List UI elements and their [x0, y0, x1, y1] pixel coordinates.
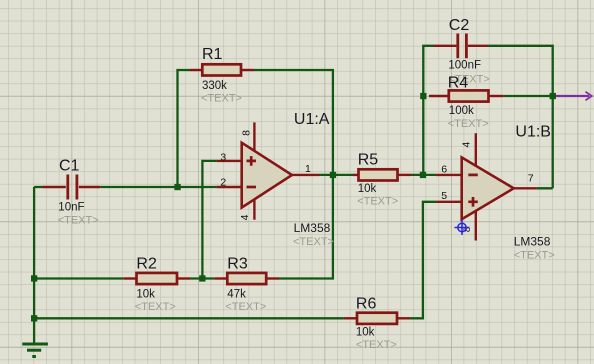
- label R5: [358, 152, 379, 169]
- svg-text:47k: 47k: [227, 289, 246, 301]
- wire: pin5 to R6 right riser: [410, 202, 436, 318]
- pin 4 label (U1:B): [460, 142, 472, 148]
- label R3: [227, 256, 248, 273]
- svg-text:8: 8: [241, 130, 253, 136]
- svg-text:100nF: 100nF: [448, 60, 481, 72]
- part name LM358 (U1:A): [294, 221, 331, 235]
- pin 7 label: [528, 173, 534, 185]
- value 100k: [449, 105, 474, 117]
- svg-text:<TEXT>: <TEXT>: [135, 301, 176, 313]
- svg-text:LM358: LM358: [514, 235, 551, 249]
- svg-text:R2: R2: [136, 256, 157, 273]
- svg-text:<TEXT>: <TEXT>: [448, 118, 489, 130]
- wire: pin3 riser down to R2/R3 node: [202, 161, 216, 279]
- svg-text:4: 4: [239, 214, 251, 220]
- capacitor C1: [43, 175, 101, 200]
- part name LM358 (U1:B): [514, 235, 551, 249]
- svg-text:<TEXT>: <TEXT>: [293, 236, 334, 248]
- resistor R5: [353, 169, 411, 180]
- svg-text:5: 5: [441, 190, 447, 202]
- pin 8 label (U1:B): [462, 227, 473, 232]
- label R1: [202, 46, 223, 63]
- svg-text:U1:A: U1:A: [294, 111, 330, 128]
- text placeholder R3: [225, 301, 266, 313]
- wire: C1 right to pin2: [100, 186, 216, 188]
- value 10k (R5): [358, 183, 377, 195]
- node: C2/R4 right output junction: [550, 93, 556, 99]
- label C2: [449, 17, 470, 34]
- svg-text:LM358: LM358: [294, 221, 331, 235]
- svg-text:U1:B: U1:B: [515, 124, 551, 141]
- pin 8 label: [241, 130, 253, 136]
- text placeholder R4: [448, 118, 489, 130]
- label R6: [356, 296, 377, 313]
- op-amp U1:A: [217, 122, 320, 219]
- node: left rail / ground junction: [31, 315, 37, 321]
- wire: R1 right to output riser: [254, 70, 333, 175]
- text placeholder U1:B: [514, 250, 555, 262]
- node: U1:A output junction: [330, 172, 336, 178]
- svg-text:<TEXT>: <TEXT>: [356, 339, 397, 351]
- value 10nF: [58, 202, 84, 214]
- text placeholder R6: [356, 339, 397, 351]
- label R2: [136, 256, 157, 273]
- wire: output row to R5: [320, 174, 354, 176]
- svg-text:<TEXT>: <TEXT>: [58, 215, 99, 227]
- node: left rail / R2 junction: [31, 275, 37, 281]
- label C1: [59, 158, 80, 175]
- svg-text:<TEXT>: <TEXT>: [225, 301, 266, 313]
- no-connect marker (blue crosshair): [455, 220, 470, 235]
- node: C2/R4 left junction: [420, 93, 426, 99]
- svg-text:<TEXT>: <TEXT>: [357, 195, 398, 207]
- wire: between R2 and R3: [190, 277, 215, 279]
- resistor R1: [190, 64, 254, 75]
- svg-text:<TEXT>: <TEXT>: [514, 250, 555, 262]
- pin 6 label: [441, 164, 447, 176]
- text placeholder R1: [201, 93, 242, 105]
- value 330k: [202, 80, 227, 92]
- svg-text:R3: R3: [227, 256, 248, 273]
- svg-text:C1: C1: [59, 158, 80, 175]
- value 10k (R6): [356, 327, 375, 339]
- pin 2 label: [220, 177, 226, 189]
- wire: output riser down to R3 row: [279, 175, 333, 279]
- label R4: [448, 75, 469, 92]
- svg-text:2: 2: [220, 177, 226, 189]
- label U1:B: [515, 124, 551, 141]
- node: R5/R4/pin6 junction: [420, 172, 426, 178]
- wire: pin7 to output riser: [537, 187, 553, 189]
- wire: bottom row to R2: [34, 277, 124, 279]
- svg-text:10nF: 10nF: [58, 202, 84, 214]
- wire: C2 right to output riser: [488, 46, 553, 189]
- svg-text:C2: C2: [449, 17, 470, 34]
- svg-text:R6: R6: [356, 296, 377, 313]
- text placeholder C2: [449, 74, 490, 86]
- pin 4 label: [239, 214, 251, 220]
- ground: [22, 344, 48, 357]
- value 100nF: [448, 60, 481, 72]
- resistor R3: [215, 273, 279, 284]
- text placeholder R2: [135, 301, 176, 313]
- value 10k (R2): [136, 289, 155, 301]
- svg-text:330k: 330k: [202, 80, 227, 92]
- wire: R4 right horizontal: [504, 95, 553, 97]
- svg-text:7: 7: [528, 173, 534, 185]
- resistor R6: [344, 313, 410, 324]
- text placeholder C1: [58, 215, 99, 227]
- svg-text:100k: 100k: [449, 105, 474, 117]
- svg-text:3: 3: [220, 152, 226, 164]
- wire: C2/R4 left riser: [423, 46, 433, 175]
- wire: R5 right to pin6: [411, 174, 436, 176]
- svg-text:R1: R1: [202, 46, 223, 63]
- pin 3 label: [220, 152, 226, 164]
- svg-text:R4: R4: [448, 75, 469, 92]
- node: R2/R3/pin3 junction: [199, 275, 205, 281]
- text placeholder U1:A: [293, 236, 334, 248]
- svg-text:<TEXT>: <TEXT>: [201, 93, 242, 105]
- wire: purple output tap with arrow: [553, 92, 592, 101]
- svg-text:1: 1: [305, 163, 311, 175]
- svg-text:10k: 10k: [356, 327, 375, 339]
- wire: ground rail horizontal y=318.3: [34, 317, 344, 319]
- wire: R1 left riser: [178, 70, 191, 187]
- label U1:A: [294, 111, 330, 128]
- capacitor C2: [434, 34, 489, 59]
- wire: left input vertical rail x=34: [33, 187, 35, 343]
- pin 1 label: [305, 163, 311, 175]
- resistor R2: [124, 273, 190, 284]
- resistor R4: [429, 90, 504, 101]
- op-amp U1:B: [436, 133, 536, 240]
- svg-text:4: 4: [460, 142, 472, 148]
- wire: C1 left horizontal: [34, 186, 42, 188]
- svg-text:6: 6: [441, 164, 447, 176]
- node: C1/R1/pin2 junction: [174, 184, 180, 190]
- pin 5 label: [441, 190, 447, 202]
- value 47k: [227, 289, 246, 301]
- svg-text:R5: R5: [358, 152, 379, 169]
- svg-text:10k: 10k: [358, 183, 377, 195]
- svg-text:10k: 10k: [136, 289, 155, 301]
- text placeholder R5: [357, 195, 398, 207]
